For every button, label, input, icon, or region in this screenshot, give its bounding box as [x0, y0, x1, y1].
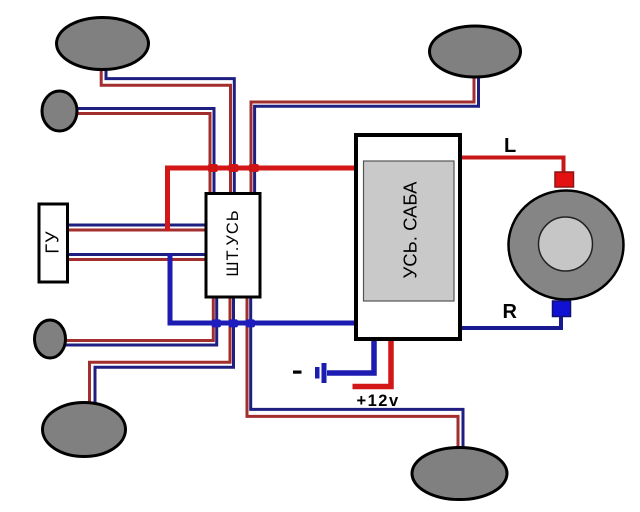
svg-text:ШТ.УСЬ: ШТ.УСЬ: [224, 209, 242, 276]
svg-text:R: R: [503, 301, 518, 323]
svg-text:УСЬ. САБА: УСЬ. САБА: [399, 181, 420, 279]
svg-text:+12v: +12v: [357, 392, 400, 410]
svg-text:ГУ: ГУ: [43, 230, 63, 253]
svg-text:L: L: [504, 135, 516, 157]
